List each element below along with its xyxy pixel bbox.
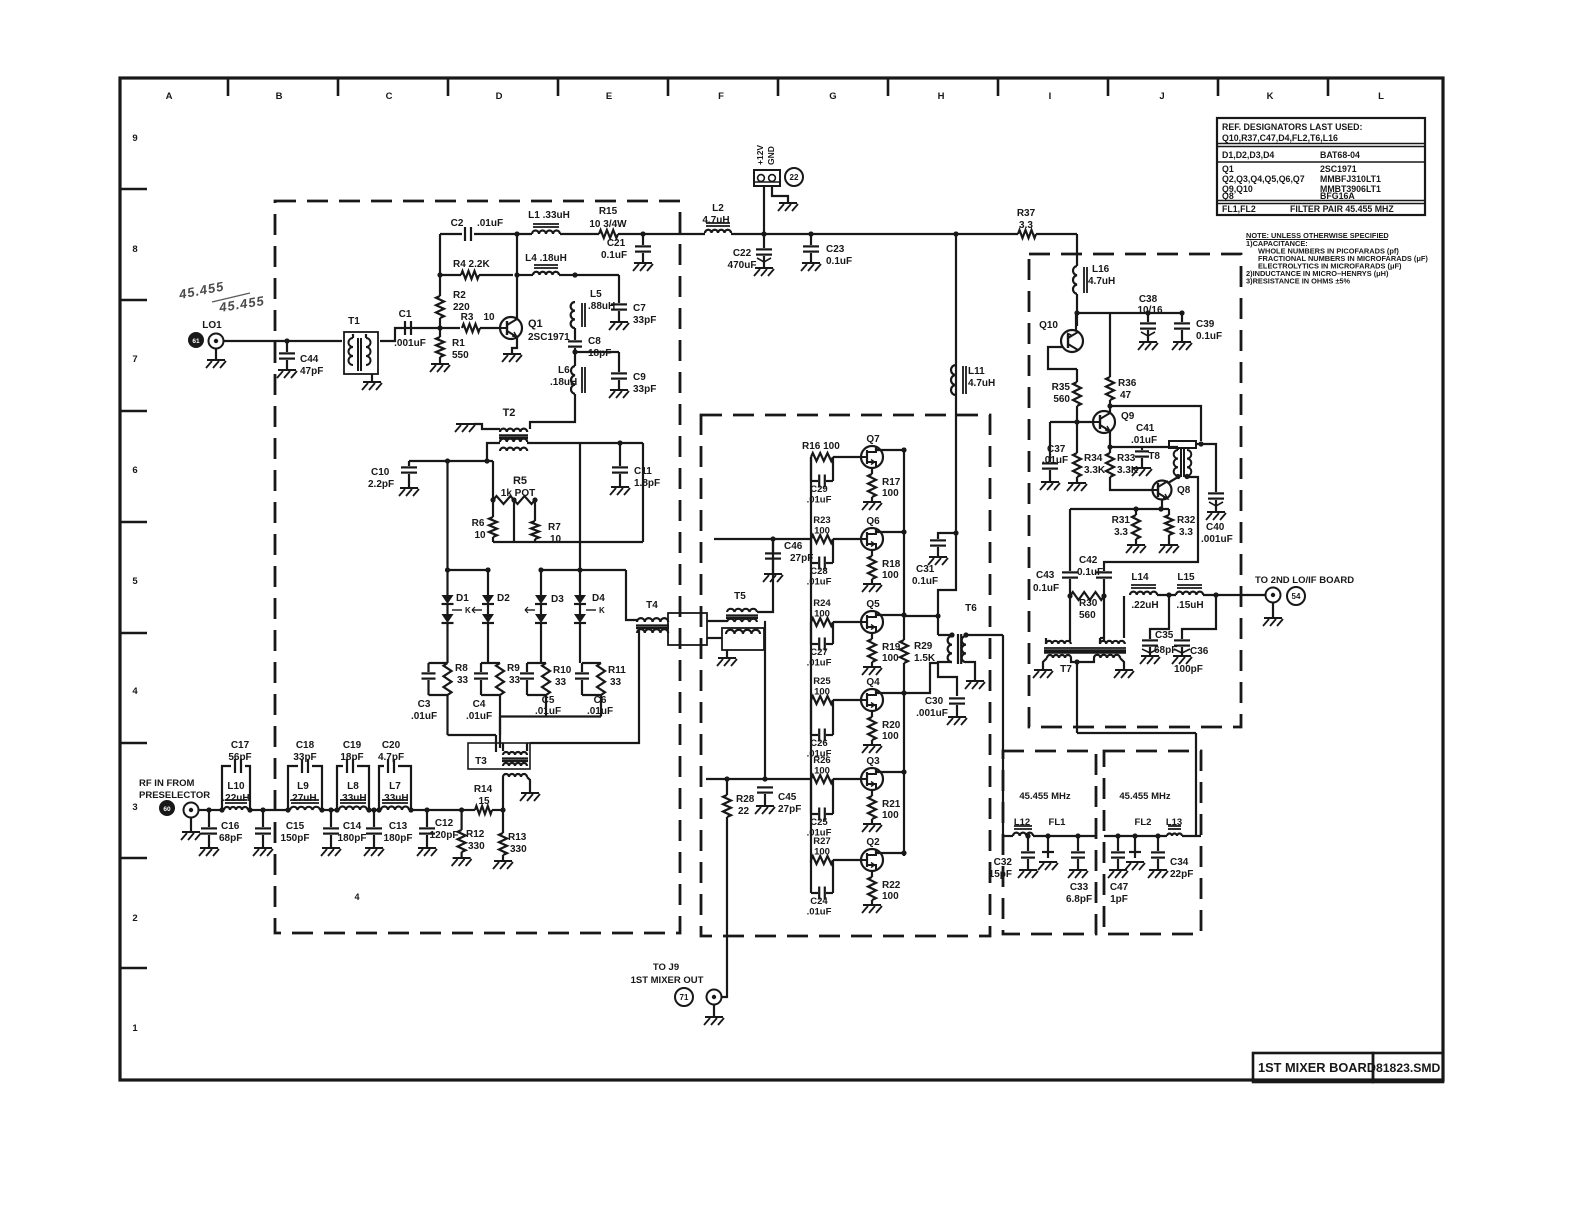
- svg-text:L1 .33uH: L1 .33uH: [528, 210, 570, 221]
- svg-text:T6: T6: [965, 603, 977, 614]
- svg-text:22: 22: [738, 806, 750, 817]
- svg-text:100: 100: [814, 766, 830, 777]
- svg-text:3.3: 3.3: [1019, 220, 1033, 231]
- svg-text:R3: R3: [461, 312, 474, 323]
- svg-text:100: 100: [882, 653, 899, 664]
- svg-text:T1: T1: [348, 316, 360, 327]
- svg-text:2: 2: [132, 913, 137, 924]
- svg-text:C38: C38: [1139, 294, 1158, 305]
- svg-text:9: 9: [132, 133, 137, 144]
- svg-text:3.3: 3.3: [1114, 527, 1128, 538]
- svg-text:C: C: [386, 91, 393, 102]
- svg-text:C26: C26: [810, 738, 827, 749]
- svg-text:LO1: LO1: [202, 320, 222, 331]
- svg-text:T8: T8: [1148, 451, 1160, 462]
- svg-text:L9: L9: [297, 781, 309, 792]
- svg-text:R23: R23: [813, 515, 830, 526]
- svg-text:R12: R12: [466, 829, 485, 840]
- svg-text:.88uH: .88uH: [588, 301, 615, 312]
- svg-text:FL1: FL1: [1049, 817, 1067, 828]
- svg-text:C46: C46: [784, 541, 803, 552]
- svg-text:L14: L14: [1131, 572, 1149, 583]
- svg-text:C17: C17: [231, 740, 250, 751]
- svg-text:FL1,FL2: FL1,FL2: [1222, 204, 1256, 214]
- svg-text:10: 10: [474, 530, 486, 541]
- svg-text:6.8pF: 6.8pF: [1066, 894, 1092, 905]
- svg-text:Q9: Q9: [1121, 411, 1135, 422]
- svg-text:.01uF: .01uF: [1042, 455, 1068, 466]
- svg-text:C23: C23: [826, 244, 845, 255]
- svg-text:C13: C13: [389, 821, 408, 832]
- svg-text:C39: C39: [1196, 319, 1215, 330]
- svg-text:R20: R20: [882, 720, 901, 731]
- svg-text:22pF: 22pF: [1170, 869, 1193, 880]
- svg-text:R4 2.2K: R4 2.2K: [453, 259, 490, 270]
- svg-text:.33uH: .33uH: [381, 793, 408, 804]
- svg-text:C3: C3: [418, 699, 431, 710]
- svg-text:0.1uF: 0.1uF: [1077, 567, 1103, 578]
- svg-text:.01uF: .01uF: [1131, 435, 1157, 446]
- svg-text:R32: R32: [1177, 515, 1196, 526]
- svg-text:100: 100: [814, 687, 830, 698]
- svg-text:L5: L5: [590, 289, 602, 300]
- svg-text:BFG16A: BFG16A: [1320, 191, 1355, 201]
- svg-text:3)RESISTANCE IN OHMS ±5%: 3)RESISTANCE IN OHMS ±5%: [1246, 277, 1351, 286]
- svg-text:Q2,Q3,Q4,Q5,Q6,Q7: Q2,Q3,Q4,Q5,Q6,Q7: [1222, 174, 1305, 184]
- svg-text:Q1: Q1: [528, 318, 543, 330]
- svg-text:C10: C10: [371, 467, 390, 478]
- svg-text:100: 100: [814, 526, 830, 537]
- svg-text:R6: R6: [472, 518, 485, 529]
- svg-text:C36: C36: [1190, 646, 1209, 657]
- svg-text:C41: C41: [1136, 423, 1155, 434]
- svg-text:C40: C40: [1206, 522, 1225, 533]
- svg-text:8: 8: [132, 244, 137, 255]
- svg-text:0.1uF: 0.1uF: [601, 250, 627, 261]
- svg-text:0.1uF: 0.1uF: [1196, 331, 1222, 342]
- svg-text:3.3: 3.3: [1179, 527, 1193, 538]
- svg-text:100: 100: [814, 609, 830, 620]
- svg-text:Q7: Q7: [866, 434, 880, 445]
- svg-text:61: 61: [192, 338, 200, 345]
- svg-text:470uF: 470uF: [728, 260, 757, 271]
- svg-text:Q4: Q4: [866, 677, 880, 688]
- svg-text:.01uF: .01uF: [807, 828, 832, 839]
- svg-text:27pF: 27pF: [778, 804, 801, 815]
- svg-text:C15: C15: [286, 821, 305, 832]
- svg-text:33: 33: [610, 677, 622, 688]
- svg-text:PRESELECTOR: PRESELECTOR: [139, 790, 210, 801]
- svg-text:0.1uF: 0.1uF: [1033, 583, 1059, 594]
- svg-text:C47: C47: [1110, 882, 1129, 893]
- svg-text:.22uH: .22uH: [1131, 600, 1158, 611]
- svg-text:560: 560: [1079, 610, 1096, 621]
- svg-text:MMBFJ310LT1: MMBFJ310LT1: [1320, 174, 1381, 184]
- svg-text:60: 60: [163, 806, 171, 813]
- svg-text:R13: R13: [508, 832, 527, 843]
- svg-text:6: 6: [132, 465, 137, 476]
- svg-text:E: E: [606, 91, 612, 102]
- svg-text:C25: C25: [810, 817, 828, 828]
- svg-text:.18uH: .18uH: [550, 377, 577, 388]
- svg-text:C43: C43: [1036, 570, 1055, 581]
- svg-text:R18: R18: [882, 559, 901, 570]
- svg-text:RF IN FROM: RF IN FROM: [139, 778, 194, 789]
- svg-text:.15uH: .15uH: [1176, 600, 1203, 611]
- svg-text:33pF: 33pF: [633, 384, 656, 395]
- svg-text:.01uF: .01uF: [411, 711, 437, 722]
- svg-text:.001uF: .001uF: [1201, 534, 1233, 545]
- svg-text:27pF: 27pF: [790, 553, 813, 564]
- svg-text:BAT68-04: BAT68-04: [1320, 150, 1360, 160]
- svg-text:C20: C20: [382, 740, 401, 751]
- svg-text:R11: R11: [608, 665, 626, 676]
- svg-text:L7: L7: [389, 781, 401, 792]
- svg-text:71: 71: [680, 993, 689, 1002]
- svg-text:.01uF: .01uF: [807, 577, 832, 588]
- svg-text:C34: C34: [1170, 857, 1189, 868]
- svg-text:L2: L2: [712, 203, 724, 214]
- svg-text:TO 2ND LO/IF BOARD: TO 2ND LO/IF BOARD: [1255, 575, 1354, 586]
- svg-text:R25: R25: [813, 676, 831, 687]
- svg-text:C30: C30: [925, 696, 944, 707]
- svg-text:Q8: Q8: [1177, 485, 1191, 496]
- svg-text:330: 330: [510, 844, 527, 855]
- svg-text:.22uH: .22uH: [222, 793, 249, 804]
- svg-text:R28: R28: [736, 794, 755, 805]
- svg-text:C5: C5: [542, 695, 555, 706]
- svg-text:REF. DESIGNATORS LAST USED:: REF. DESIGNATORS LAST USED:: [1222, 122, 1363, 132]
- svg-text:C16: C16: [221, 821, 240, 832]
- svg-text:33: 33: [509, 675, 521, 686]
- svg-text:R7: R7: [548, 522, 561, 533]
- svg-text:L16: L16: [1092, 264, 1110, 275]
- svg-text:220: 220: [453, 302, 470, 313]
- svg-text:D3: D3: [551, 594, 564, 605]
- svg-text:.01uF: .01uF: [535, 706, 561, 717]
- svg-text:68pF: 68pF: [1154, 645, 1177, 656]
- svg-text:T5: T5: [734, 591, 746, 602]
- svg-text:C12: C12: [435, 818, 454, 829]
- svg-text:GND: GND: [766, 146, 776, 165]
- svg-text:Q3: Q3: [866, 756, 880, 767]
- svg-text:.001uF: .001uF: [394, 338, 426, 349]
- svg-text:100pF: 100pF: [1174, 664, 1203, 675]
- svg-text:1.8pF: 1.8pF: [634, 478, 660, 489]
- svg-text:100: 100: [882, 810, 899, 821]
- svg-text:T3: T3: [475, 756, 487, 767]
- svg-text:56pF: 56pF: [228, 752, 251, 763]
- svg-text:C28: C28: [810, 566, 827, 577]
- svg-text:81823.SMD: 81823.SMD: [1376, 1061, 1441, 1075]
- svg-text:33: 33: [457, 675, 469, 686]
- svg-text:R36: R36: [1118, 378, 1137, 389]
- svg-text:Q8: Q8: [1222, 191, 1234, 201]
- svg-text:C7: C7: [633, 303, 646, 314]
- svg-text:Q10,R37,C47,D4,FL2,T6,L16: Q10,R37,C47,D4,FL2,T6,L16: [1222, 133, 1338, 143]
- svg-text:R22: R22: [882, 880, 901, 891]
- svg-text:1ST MIXER OUT: 1ST MIXER OUT: [631, 975, 704, 986]
- svg-text:D1: D1: [456, 593, 469, 604]
- svg-text:10: 10: [483, 312, 495, 323]
- svg-text:C21: C21: [607, 238, 626, 249]
- svg-text:Q5: Q5: [866, 599, 880, 610]
- svg-text:R16 100: R16 100: [802, 441, 840, 452]
- svg-text:R17: R17: [882, 477, 901, 488]
- svg-text:330: 330: [468, 841, 485, 852]
- svg-text:47pF: 47pF: [300, 366, 323, 377]
- svg-text:C24: C24: [810, 896, 828, 907]
- svg-text:D: D: [496, 91, 503, 102]
- svg-text:F: F: [718, 91, 724, 102]
- svg-text:120pF: 120pF: [430, 830, 459, 841]
- svg-text:10 3/4W: 10 3/4W: [589, 219, 627, 230]
- svg-text:7: 7: [132, 354, 137, 365]
- svg-text:L10: L10: [227, 781, 245, 792]
- svg-text:1ST MIXER BOARD: 1ST MIXER BOARD: [1258, 1060, 1376, 1075]
- svg-text:.001uF: .001uF: [916, 708, 948, 719]
- svg-text:T7: T7: [1060, 664, 1072, 675]
- svg-text:3.3K: 3.3K: [1084, 465, 1106, 476]
- svg-text:R19: R19: [882, 642, 901, 653]
- svg-text:.33uH: .33uH: [339, 793, 366, 804]
- svg-text:3: 3: [132, 802, 137, 813]
- svg-text:R30: R30: [1079, 598, 1098, 609]
- svg-text:I: I: [1049, 91, 1052, 102]
- svg-text:H: H: [938, 91, 945, 102]
- svg-text:TO J9: TO J9: [653, 962, 679, 973]
- svg-text:45.455 MHz: 45.455 MHz: [1019, 791, 1070, 802]
- svg-text:C4: C4: [473, 699, 486, 710]
- svg-text:T2: T2: [503, 407, 516, 419]
- svg-text:C31: C31: [916, 564, 935, 575]
- svg-text:100: 100: [882, 731, 899, 742]
- svg-text:R34: R34: [1084, 453, 1103, 464]
- svg-text:2.2pF: 2.2pF: [368, 479, 394, 490]
- svg-text:Q1: Q1: [1222, 164, 1234, 174]
- svg-text:4.7uH: 4.7uH: [702, 215, 729, 226]
- svg-text:C42: C42: [1079, 555, 1098, 566]
- svg-text:54: 54: [1292, 592, 1301, 601]
- svg-text:4.7pF: 4.7pF: [378, 752, 404, 763]
- svg-text:0.1uF: 0.1uF: [826, 256, 852, 267]
- svg-text:R8: R8: [455, 663, 468, 674]
- svg-text:33pF: 33pF: [633, 315, 656, 326]
- svg-text:R15: R15: [599, 206, 618, 217]
- svg-text:22: 22: [790, 173, 799, 182]
- svg-text:18pF: 18pF: [340, 752, 363, 763]
- svg-text:D1,D2,D3,D4: D1,D2,D3,D4: [1222, 150, 1274, 160]
- svg-text:47: 47: [1120, 390, 1132, 401]
- svg-text:.01uF: .01uF: [477, 218, 503, 229]
- svg-text:.01uF: .01uF: [807, 907, 832, 918]
- svg-text:C27: C27: [810, 647, 827, 658]
- svg-text:L8: L8: [347, 781, 359, 792]
- svg-text:100: 100: [882, 488, 899, 499]
- svg-text:1pF: 1pF: [1110, 894, 1128, 905]
- svg-text:Q2: Q2: [866, 837, 880, 848]
- svg-text:L11: L11: [968, 366, 985, 377]
- svg-text:L6: L6: [558, 365, 570, 376]
- svg-text:C19: C19: [343, 740, 362, 751]
- svg-text:C1: C1: [399, 309, 412, 320]
- svg-text:C44: C44: [300, 354, 319, 365]
- svg-text:R1: R1: [452, 338, 465, 349]
- svg-text:.01uF: .01uF: [807, 495, 832, 506]
- svg-text:150pF: 150pF: [281, 833, 310, 844]
- svg-text:33pF: 33pF: [293, 752, 316, 763]
- svg-text:D4: D4: [592, 593, 605, 604]
- svg-text:68pF: 68pF: [219, 833, 242, 844]
- svg-text:R10: R10: [553, 665, 572, 676]
- svg-text:C32: C32: [994, 857, 1013, 868]
- svg-text:10: 10: [550, 534, 562, 545]
- svg-text:Q10: Q10: [1039, 320, 1058, 331]
- svg-text:C18: C18: [296, 740, 315, 751]
- svg-text:45.455 MHz: 45.455 MHz: [1119, 791, 1170, 802]
- svg-text:C33: C33: [1070, 882, 1089, 893]
- svg-text:R29: R29: [914, 641, 933, 652]
- svg-text:100: 100: [882, 570, 899, 581]
- svg-text:G: G: [829, 91, 836, 102]
- svg-text:K: K: [599, 606, 605, 615]
- svg-text:C45: C45: [778, 792, 797, 803]
- svg-text:100: 100: [882, 891, 899, 902]
- svg-text:33: 33: [555, 677, 567, 688]
- svg-text:C35: C35: [1155, 630, 1174, 641]
- svg-text:R24: R24: [813, 598, 831, 609]
- svg-text:550: 550: [452, 350, 469, 361]
- svg-text:.27uH: .27uH: [289, 793, 316, 804]
- svg-text:R9: R9: [507, 663, 520, 674]
- svg-text:C2: C2: [451, 218, 464, 229]
- svg-text:R14: R14: [474, 784, 493, 795]
- svg-text:100: 100: [814, 847, 830, 858]
- svg-text:Q6: Q6: [866, 516, 880, 527]
- svg-text:C9: C9: [633, 372, 646, 383]
- svg-text:K: K: [465, 606, 471, 615]
- svg-text:+12V: +12V: [755, 145, 765, 165]
- svg-text:15pF: 15pF: [989, 869, 1012, 880]
- svg-text:.01uF: .01uF: [466, 711, 492, 722]
- svg-text:C14: C14: [343, 821, 362, 832]
- svg-text:FILTER PAIR 45.455 MHZ: FILTER PAIR 45.455 MHZ: [1290, 204, 1394, 214]
- svg-text:10/16: 10/16: [1137, 305, 1162, 316]
- svg-text:5: 5: [132, 576, 138, 587]
- svg-text:180pF: 180pF: [338, 833, 367, 844]
- svg-text:.01uF: .01uF: [807, 658, 832, 669]
- svg-text:18pF: 18pF: [588, 348, 611, 359]
- svg-text:R21: R21: [882, 799, 901, 810]
- svg-text:K: K: [1267, 91, 1274, 102]
- svg-text:FL2: FL2: [1135, 817, 1152, 828]
- svg-text:4: 4: [132, 686, 138, 697]
- svg-text:4: 4: [354, 892, 359, 902]
- svg-text:180pF: 180pF: [384, 833, 413, 844]
- svg-text:1: 1: [132, 1023, 138, 1034]
- svg-text:B: B: [276, 91, 283, 102]
- svg-text:R5: R5: [513, 475, 527, 487]
- svg-text:4.7uH: 4.7uH: [968, 378, 995, 389]
- svg-text:C8: C8: [588, 336, 601, 347]
- svg-text:R37: R37: [1017, 208, 1036, 219]
- svg-text:A: A: [166, 91, 173, 102]
- svg-text:C29: C29: [810, 484, 827, 495]
- svg-text:D2: D2: [497, 593, 510, 604]
- svg-text:15: 15: [478, 796, 490, 807]
- svg-text:1k POT: 1k POT: [501, 488, 535, 499]
- svg-text:R2: R2: [453, 290, 466, 301]
- svg-text:J: J: [1159, 91, 1164, 102]
- svg-text:4.7uH: 4.7uH: [1088, 276, 1115, 287]
- svg-text:T4: T4: [646, 600, 658, 611]
- svg-text:560: 560: [1053, 394, 1070, 405]
- svg-text:.01uF: .01uF: [807, 749, 832, 760]
- svg-text:L4 .18uH: L4 .18uH: [525, 253, 567, 264]
- svg-text:2SC1971: 2SC1971: [1320, 164, 1357, 174]
- svg-text:R33: R33: [1117, 453, 1136, 464]
- svg-text:C37: C37: [1047, 444, 1066, 455]
- svg-text:2SC1971: 2SC1971: [528, 332, 570, 343]
- svg-text:0.1uF: 0.1uF: [912, 576, 938, 587]
- svg-text:R31: R31: [1112, 515, 1131, 526]
- svg-text:R35: R35: [1052, 382, 1071, 393]
- svg-text:C22: C22: [733, 248, 752, 259]
- svg-text:L15: L15: [1177, 572, 1195, 583]
- svg-text:L: L: [1378, 91, 1384, 102]
